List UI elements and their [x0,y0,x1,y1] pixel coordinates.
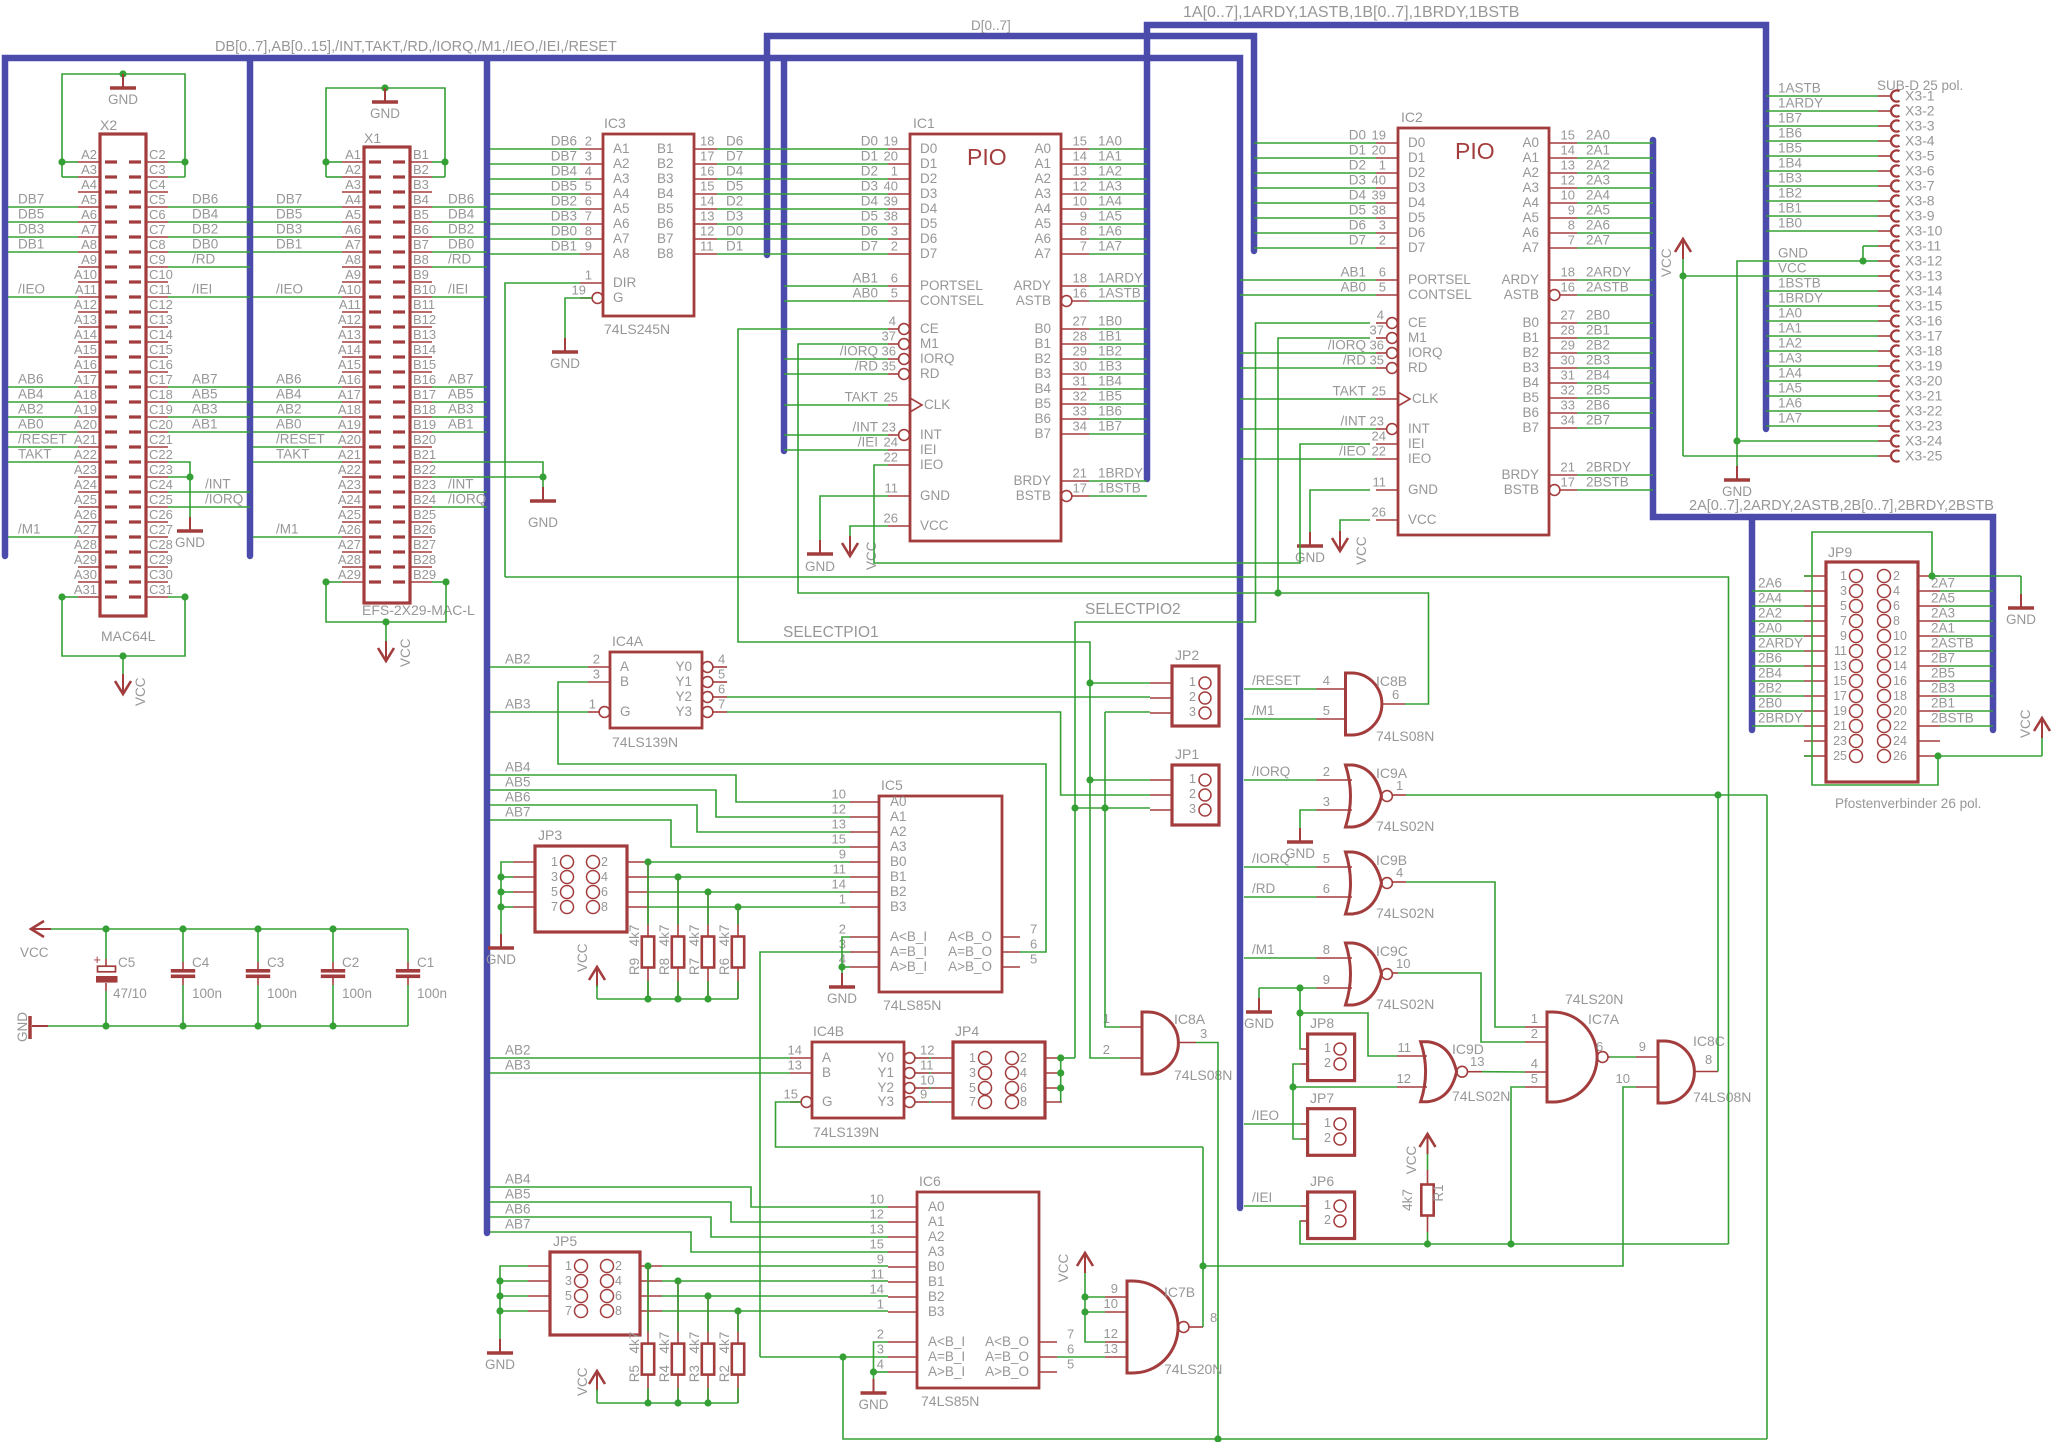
junction dot IC5 pin4 [838,963,845,970]
net IC8C.10 from IC7B G-net [1203,1087,1636,1266]
svg-text:1BSTB: 1BSTB [1778,276,1821,291]
svg-text:7: 7 [1080,239,1087,254]
svg-text:Y3: Y3 [675,704,692,719]
svg-text:A=B_I: A=B_I [928,1349,965,1364]
svg-text:1B4: 1B4 [1098,374,1123,389]
svg-text:11: 11 [833,862,847,877]
svg-text:VCC: VCC [398,638,413,667]
net VCC rail under R9-R6 [597,998,738,1000]
svg-text:INT: INT [920,427,942,442]
svg-text:D1: D1 [861,149,878,164]
svg-text:4k7: 4k7 [657,1332,672,1354]
svg-text:A14: A14 [338,342,361,357]
svg-text:9: 9 [1840,629,1847,643]
capacitor C1 100n [407,929,409,962]
svg-text:11: 11 [1373,475,1387,490]
IC3 left pins A1-A8 [580,148,603,150]
net IC7B inputs 9 10 12 tied to VCC [1085,1271,1105,1342]
ground GND at IC9A [1299,828,1301,841]
svg-text:2ARDY: 2ARDY [1758,636,1803,651]
wires IC1 /INT from bus [784,434,888,436]
svg-text:B4: B4 [1034,381,1051,396]
svg-text:X3-18: X3-18 [1905,343,1943,359]
svg-text:2B0: 2B0 [1586,308,1610,323]
svg-text:10: 10 [1561,188,1575,203]
svg-text:GND: GND [920,488,950,503]
svg-text:B0: B0 [890,854,907,869]
svg-text:JP6: JP6 [1310,1173,1334,1189]
svg-text:27: 27 [1561,308,1575,323]
svg-text:X1: X1 [364,130,381,146]
svg-text:IC7A: IC7A [1588,1011,1620,1027]
svg-text:A6: A6 [81,207,97,222]
svg-text:2: 2 [1103,1042,1110,1057]
svg-text:A4: A4 [613,186,630,201]
svg-text:1: 1 [1840,569,1847,583]
wires X2 left side nets [8,206,78,208]
IC1 pins CE M1 IORQ RD with bubbles [899,324,910,335]
svg-text:Pfostenverbinder 26 pol.: Pfostenverbinder 26 pol. [1835,796,1981,811]
svg-text:7: 7 [585,209,592,224]
svg-text:31: 31 [1561,368,1575,383]
svg-text:X3-16: X3-16 [1905,313,1943,329]
gate IC9C 74LS02N NOR [1346,943,1382,1005]
svg-text:Y1: Y1 [675,674,692,689]
svg-text:A14: A14 [74,327,97,342]
wires X1 right side nets [432,206,487,208]
svg-text:74LS85N: 74LS85N [921,1393,979,1409]
svg-text:TAKT: TAKT [1333,384,1367,399]
svg-text:B25: B25 [413,507,436,522]
svg-text:6: 6 [1030,937,1037,952]
svg-text:1B1: 1B1 [1098,329,1122,344]
IC7A input pins 1 2 4 5 [1525,1026,1548,1028]
svg-text:/IEO: /IEO [18,282,45,297]
connector JP8 jumper [1308,1034,1355,1081]
svg-text:CONTSEL: CONTSEL [1408,287,1472,302]
svg-text:1B3: 1B3 [1098,359,1122,374]
svg-text:9: 9 [585,239,592,254]
power VCC at X1 bottom [378,648,394,661]
svg-text:A5: A5 [1034,216,1051,231]
svg-text:100n: 100n [342,986,372,1001]
svg-text:JP5: JP5 [553,1233,577,1249]
svg-text:PIO: PIO [1455,138,1495,164]
svg-text:15: 15 [700,179,714,194]
svg-text:1B2: 1B2 [1098,344,1122,359]
wire IC2 TAKT from bus [1240,398,1376,400]
svg-text:8: 8 [1323,942,1330,957]
svg-text:R7: R7 [687,958,702,975]
svg-text:A7: A7 [1522,240,1539,255]
svg-text:X3-13: X3-13 [1905,268,1943,284]
IC1 pin IEI [888,449,910,451]
IC1 pin GND [888,495,910,497]
connector JP6 jumper [1308,1192,1355,1239]
gate IC8B 74LS08N AND [1346,673,1382,735]
svg-text:VCC: VCC [575,1367,590,1396]
svg-text:1: 1 [1379,158,1386,173]
capacitor C2 100n [332,929,334,962]
svg-text:A11: A11 [75,282,97,297]
svg-text:A27: A27 [338,537,361,552]
svg-text:26: 26 [1893,749,1907,763]
svg-text:74LS08N: 74LS08N [1174,1067,1232,1083]
svg-text:IC4B: IC4B [813,1023,844,1039]
svg-text:2: 2 [1189,690,1196,704]
svg-text:A29: A29 [74,552,97,567]
svg-text:B1: B1 [1522,330,1539,345]
svg-text:4: 4 [1377,308,1384,323]
connector pin X3-1 [1878,95,1890,97]
net VCC rail under R5-R2 [597,1402,738,1404]
svg-text:X3-6: X3-6 [1905,163,1935,179]
svg-text:A<B_O: A<B_O [985,1334,1029,1349]
svg-text:A1: A1 [928,1214,945,1229]
svg-text:+: + [93,952,101,967]
svg-text:CLK: CLK [1412,391,1438,406]
IC4B left pins A B [790,1057,812,1059]
svg-text:2ASTB: 2ASTB [1586,280,1629,295]
svg-text:1A2: 1A2 [1778,336,1802,351]
svg-text:7: 7 [1067,1327,1074,1342]
svg-text:/M1: /M1 [1252,942,1275,957]
svg-text:IEI: IEI [920,442,937,457]
svg-text:A4: A4 [1034,201,1051,216]
svg-text:2ARDY: 2ARDY [1586,265,1631,280]
wire X1 B21/B22 to ground [432,462,543,487]
svg-text:2A1: 2A1 [1586,143,1610,158]
svg-text:C10: C10 [149,267,173,282]
svg-text:A26: A26 [74,507,97,522]
svg-text:A23: A23 [338,477,361,492]
svg-text:D1: D1 [1349,143,1366,158]
svg-text:C2: C2 [342,955,359,970]
IC9C input pins 8 9 [1317,957,1353,959]
svg-text:A7: A7 [613,231,630,246]
svg-text:X3-21: X3-21 [1905,388,1943,404]
bus D[0..7] [767,36,1254,255]
svg-text:IC7B: IC7B [1164,1284,1195,1300]
svg-text:17: 17 [1561,475,1575,490]
svg-text:D0: D0 [920,141,937,156]
svg-text:A2: A2 [1522,165,1539,180]
svg-text:6: 6 [1020,1081,1027,1095]
svg-text:B3: B3 [657,171,674,186]
IC U6 74LS85N comparator IC6 [917,1192,1039,1388]
svg-text:1: 1 [1324,1116,1331,1130]
svg-text:D7: D7 [1349,233,1366,248]
ground GND at IC6 [873,1379,875,1392]
svg-text:10: 10 [920,1073,934,1088]
connector pin X3-17 [1878,335,1890,337]
svg-text:AB1: AB1 [192,417,218,432]
svg-text:IC2: IC2 [1401,109,1423,125]
svg-text:17: 17 [1833,689,1847,703]
svg-text:A23: A23 [74,462,97,477]
wires R9-R6 leads green sections [647,862,649,925]
svg-text:AB0: AB0 [852,286,878,301]
svg-text:A5: A5 [1522,210,1539,225]
svg-text:2B4: 2B4 [1758,666,1783,681]
svg-text:GND: GND [108,92,138,107]
svg-text:2A4: 2A4 [1758,591,1783,606]
svg-text:8: 8 [1705,1052,1712,1067]
svg-text:DB[0..7],AB[0..15],/INT,TAKT,/: DB[0..7],AB[0..15],/INT,TAKT,/RD,/IORQ,/… [215,39,617,55]
gate IC9B 74LS02N NOR [1346,852,1382,914]
svg-text:1A2: 1A2 [1098,164,1122,179]
svg-text:A21: A21 [338,447,361,462]
svg-text:B6: B6 [413,222,429,237]
svg-text:DB7: DB7 [551,149,577,164]
wires IC3 A-side from bus [490,148,580,150]
svg-text:30: 30 [1561,353,1575,368]
svg-text:B29: B29 [413,567,436,582]
svg-text:8: 8 [1568,218,1575,233]
svg-text:/M1: /M1 [1252,703,1275,718]
connector pin X3-13 [1878,275,1890,277]
svg-text:B3: B3 [413,177,429,192]
svg-text:29: 29 [1073,344,1087,359]
svg-text:19: 19 [1833,704,1847,718]
svg-text:2: 2 [891,239,898,254]
svg-text:2: 2 [1324,1131,1331,1145]
svg-text:2ASTB: 2ASTB [1931,636,1974,651]
net IC3 DIR to pullup line [505,283,580,577]
svg-text:D4: D4 [1408,195,1426,210]
svg-text:2BRDY: 2BRDY [1758,711,1803,726]
svg-text:G: G [613,290,624,305]
net JP4 even pins 2 4 6 8 common [1060,1058,1062,1102]
svg-text:6: 6 [1392,687,1399,702]
svg-text:2: 2 [615,1259,622,1273]
svg-text:A10: A10 [74,267,97,282]
svg-text:1ARDY: 1ARDY [1778,96,1823,111]
junction dot JP9 pin26 vcc [1934,752,1941,759]
svg-text:C26: C26 [149,507,173,522]
net JP8.1 from gnd net [1299,988,1302,1049]
svg-text:2A0: 2A0 [1758,621,1782,636]
svg-text:D4: D4 [920,201,938,216]
svg-text:1: 1 [969,1051,976,1065]
svg-text:AB4: AB4 [18,387,44,402]
svg-text:D0: D0 [1349,128,1366,143]
svg-text:15: 15 [1561,128,1575,143]
connector pin X3-18 [1878,350,1890,352]
svg-text:12: 12 [1073,179,1087,194]
svg-text:ARDY: ARDY [1501,272,1539,287]
svg-text:R3: R3 [687,1365,702,1382]
net IC8C output up to IC9A output net [1717,795,1719,1072]
IC7A output pin 6 [1608,1056,1610,1058]
junction dots JP3 gnd [497,873,504,880]
svg-text:Y2: Y2 [675,689,692,704]
IC9A output pin 1 [1393,794,1407,796]
svg-text:14: 14 [700,194,714,209]
svg-text:D5: D5 [1408,210,1425,225]
svg-text:25: 25 [884,390,898,405]
IC8C input pins 9 10 [1636,1056,1659,1058]
svg-text:21: 21 [1833,719,1847,733]
connector pin X3-11 [1878,245,1890,247]
svg-text:74LS08N: 74LS08N [1693,1089,1751,1105]
svg-text:4k7: 4k7 [687,925,702,947]
svg-text:4: 4 [1531,1056,1538,1071]
IC U4B 74LS139N decoder IC4B [812,1042,904,1118]
svg-text:2: 2 [601,855,608,869]
svg-text:X3-14: X3-14 [1905,283,1943,299]
svg-text:13: 13 [1561,158,1575,173]
svg-text:A0: A0 [1034,141,1051,156]
svg-text:VCC: VCC [1408,512,1437,527]
svg-text:D5: D5 [1349,203,1366,218]
svg-text:4k7: 4k7 [717,1332,732,1354]
svg-text:D3: D3 [726,209,743,224]
wires JP9 right pins to 2A bus [1940,590,1993,592]
svg-text:D3: D3 [1408,180,1425,195]
svg-text:2B1: 2B1 [1931,696,1955,711]
svg-text:C15: C15 [149,342,173,357]
svg-text:X3-15: X3-15 [1905,298,1943,314]
net JP5 odd pins to ground [500,1266,528,1339]
svg-text:DB0: DB0 [192,237,218,252]
svg-text:A7: A7 [1034,246,1051,261]
svg-text:74LS20N: 74LS20N [1565,991,1623,1007]
svg-text:VCC: VCC [20,945,49,960]
net IC9C.9 ground with JP8.1 and IC9D.11 [1259,987,1317,989]
svg-text:AB7: AB7 [505,1217,531,1232]
resistor R9 4k7 [647,862,649,937]
svg-text:A>B_I: A>B_I [928,1364,965,1379]
connector pin X3-3 [1878,125,1890,127]
svg-text:9: 9 [1323,972,1330,987]
svg-text:12: 12 [1104,1326,1118,1341]
connector pin X3-6 [1878,170,1890,172]
svg-text:X3-19: X3-19 [1905,358,1943,374]
gate IC7A 74LS20N NAND4 [1547,1012,1597,1102]
svg-text:X3-11: X3-11 [1905,238,1942,254]
svg-text:A28: A28 [338,552,361,567]
svg-text:5: 5 [891,286,898,301]
svg-text:AB6: AB6 [505,790,531,805]
power VCC arrow at cap rail [31,921,44,937]
connector pin X3-15 [1878,305,1890,307]
resistor R7 4k7 [707,892,709,937]
svg-text:6: 6 [615,1289,622,1303]
svg-text:GND: GND [485,1357,515,1372]
svg-text:8: 8 [1893,614,1900,628]
svg-text:13: 13 [788,1058,802,1073]
svg-text:B4: B4 [413,192,429,207]
svg-text:C24: C24 [149,477,173,492]
IC4A pin G with bubble [599,707,610,718]
svg-text:D3: D3 [861,179,878,194]
IC2 pins ARDY ASTB [1549,279,1577,281]
svg-text:D4: D4 [861,194,879,209]
svg-text:DB3: DB3 [276,222,302,237]
svg-text:5: 5 [585,179,592,194]
svg-text:10: 10 [832,787,846,802]
svg-text:TAKT: TAKT [18,447,52,462]
svg-text:11: 11 [700,239,714,254]
svg-text:A25: A25 [74,492,97,507]
svg-text:A8: A8 [345,252,361,267]
svg-text:74LS245N: 74LS245N [604,321,670,337]
wires IC1 AB1 AB0 from bus [784,285,888,287]
svg-text:2: 2 [877,1327,884,1342]
svg-text:1: 1 [1396,778,1403,793]
svg-text:16: 16 [1073,286,1087,301]
svg-text:1A0: 1A0 [1778,306,1802,321]
svg-text:20: 20 [1372,143,1386,158]
svg-text:D5: D5 [861,209,878,224]
svg-text:B20: B20 [413,432,436,447]
svg-text:3: 3 [1323,794,1330,809]
svg-text:AB4: AB4 [276,387,302,402]
svg-text:1A5: 1A5 [1778,381,1802,396]
svg-text:1BRDY: 1BRDY [1098,466,1143,481]
wire JP2 pin3 from select net [1105,711,1150,713]
wire IC4B.G from IC7B output net [776,1102,1204,1147]
svg-text:2A5: 2A5 [1586,203,1610,218]
svg-text:2: 2 [1189,787,1196,801]
connector pin X3-19 [1878,365,1890,367]
svg-text:2B2: 2B2 [1758,681,1782,696]
svg-text:12: 12 [920,1043,934,1058]
svg-text:/INT: /INT [853,420,879,435]
wire AB3 to IC4B.B [490,1072,790,1074]
svg-text:2A7: 2A7 [1586,233,1610,248]
svg-text:C14: C14 [149,327,173,342]
IC9B input pins 5 6 [1317,866,1353,868]
svg-text:B1: B1 [657,141,674,156]
svg-text:16: 16 [700,164,714,179]
svg-text:/RD: /RD [192,252,216,267]
svg-text:7: 7 [969,1095,976,1109]
svg-text:7: 7 [718,697,725,712]
svg-text:X3-4: X3-4 [1905,133,1935,149]
svg-text:X3-22: X3-22 [1905,403,1943,419]
svg-text:D4: D4 [726,164,744,179]
svg-text:D4: D4 [1349,188,1367,203]
resistor R1 4k7 [1421,1185,1433,1216]
svg-text:1A[0..7],1ARDY,1ASTB,1B[0..7],: 1A[0..7],1ARDY,1ASTB,1B[0..7],1BRDY,1BST… [1183,4,1519,21]
svg-text:7: 7 [1030,922,1037,937]
net IC6 pin3 IC5 pin3 from IC8A output [760,1356,888,1358]
svg-text:B3: B3 [1034,366,1051,381]
svg-text:B2: B2 [1034,351,1051,366]
JP5 pin circles and numbers [575,1260,588,1273]
svg-text:3: 3 [891,224,898,239]
svg-text:2: 2 [1379,233,1386,248]
svg-text:X3-24: X3-24 [1905,433,1943,449]
svg-text:A24: A24 [338,492,361,507]
svg-text:CE: CE [1408,315,1427,330]
wires JP9 left pins from 2A bus [1752,590,1804,592]
net JP9 pins 25-26 vcc loop [1804,756,1938,785]
svg-text:13: 13 [870,1222,884,1237]
wires IC1 A0-A7 to bus [1089,148,1147,150]
svg-text:74LS85N: 74LS85N [883,997,941,1013]
svg-text:TAKT: TAKT [276,447,310,462]
power VCC at JP9 [2034,718,2050,731]
wire X2 A31/C31 VCC loop [62,597,185,656]
svg-text:8: 8 [615,1304,622,1318]
svg-text:2A3: 2A3 [1586,173,1610,188]
svg-text:G: G [620,704,631,719]
svg-text:C27: C27 [149,522,173,537]
junction X2 ground loop dots [58,158,65,165]
